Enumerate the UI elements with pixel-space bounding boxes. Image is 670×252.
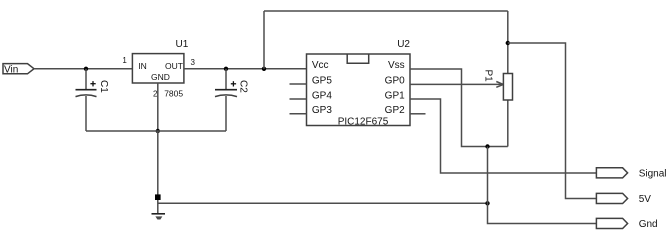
svg-text:GP2: GP2 xyxy=(385,105,405,116)
junction 5V at P1 top xyxy=(506,41,510,45)
svg-text:GP4: GP4 xyxy=(312,90,332,101)
capacitor C2 xyxy=(215,80,249,97)
wire 5V top run xyxy=(264,10,508,12)
svg-text:OUT: OUT xyxy=(165,61,183,71)
wire C1 top lead xyxy=(85,69,87,90)
svg-text:GP5: GP5 xyxy=(312,75,332,86)
wire Vin to U1 pin 1 xyxy=(34,68,132,70)
svg-text:1: 1 xyxy=(122,56,127,65)
wire C2 top lead xyxy=(225,69,227,90)
wire U1 pin 2 GND down xyxy=(157,83,159,131)
capacitor C1 xyxy=(76,80,110,97)
wire gnd branch down to tag xyxy=(488,147,598,224)
svg-text:Gnd: Gnd xyxy=(639,219,658,230)
svg-text:7805: 7805 xyxy=(164,89,183,99)
net tag Gnd xyxy=(596,218,657,230)
wire ground rail C1 to C2 xyxy=(86,130,226,132)
wire ground rail to right xyxy=(158,202,488,204)
svg-text:Vin: Vin xyxy=(4,64,18,75)
wire 5V riser left xyxy=(263,11,265,69)
junction gnd at P1 bottom wire xyxy=(485,144,489,148)
supply junction square xyxy=(155,194,161,200)
junction C1 tap xyxy=(84,67,88,71)
ground symbol xyxy=(152,214,166,220)
U2 pin GP3 stub xyxy=(290,113,307,115)
svg-text:3: 3 xyxy=(191,58,196,67)
svg-text:GP3: GP3 xyxy=(312,105,332,116)
junction ground rail crossing xyxy=(485,201,489,205)
U2 pin GP4 stub xyxy=(290,98,307,100)
wire top run down to P1 top xyxy=(507,11,509,74)
wire U1 GND to ground symbol xyxy=(157,131,159,214)
microcontroller U2 PIC12F675 xyxy=(307,39,411,128)
svg-text:Vcc: Vcc xyxy=(312,60,329,71)
svg-text:GND: GND xyxy=(151,72,170,82)
net tag Vin xyxy=(3,64,34,76)
svg-text:IN: IN xyxy=(138,61,147,71)
junction C2 tap xyxy=(224,67,228,71)
net tag 5V xyxy=(596,193,651,205)
junction ground rail at U1 GND xyxy=(156,129,160,133)
wire U2 GP0 to P1 wiper xyxy=(410,82,503,88)
svg-text:GP1: GP1 xyxy=(385,90,405,101)
svg-text:P1: P1 xyxy=(483,70,494,83)
svg-text:PIC12F675: PIC12F675 xyxy=(338,117,389,128)
svg-text:C2: C2 xyxy=(238,80,249,93)
net tag Signal xyxy=(596,168,666,180)
U2 pin GP2 stub xyxy=(410,113,426,115)
svg-text:Signal: Signal xyxy=(639,169,667,180)
svg-text:Vss: Vss xyxy=(388,60,405,71)
svg-text:U1: U1 xyxy=(176,39,189,50)
potentiometer P1 xyxy=(483,70,513,101)
wire P1 bottom lead xyxy=(507,100,509,147)
U2 pin GP5 stub xyxy=(290,83,307,85)
junction 5V rail to top bypass xyxy=(262,67,266,71)
wire U2 Vss to ground net xyxy=(410,69,508,147)
svg-text:U2: U2 xyxy=(397,39,410,50)
wire 5V branch to tag xyxy=(508,43,597,199)
svg-text:5V: 5V xyxy=(639,194,652,205)
wire C2 bottom lead xyxy=(225,96,227,131)
wire U2 GP1 to Signal tag xyxy=(410,99,597,173)
wire U1 OUT to U2 Vcc net 5V xyxy=(184,68,307,70)
voltage regulator U1 7805 xyxy=(132,39,188,83)
svg-text:GP0: GP0 xyxy=(385,75,405,86)
svg-text:C1: C1 xyxy=(98,80,109,93)
wire C1 bottom lead xyxy=(85,96,87,131)
